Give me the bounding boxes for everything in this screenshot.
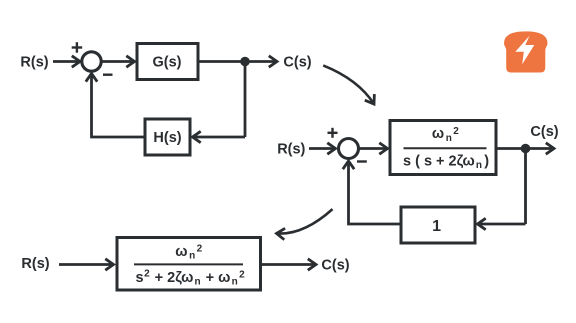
svg-text:R(s): R(s) xyxy=(21,256,49,272)
svg-text:R(s): R(s) xyxy=(20,54,48,70)
svg-text:s ( s + 2ζωn): s ( s + 2ζωn) xyxy=(403,153,489,171)
svg-text:s2 + 2ζωn + ωn2: s2 + 2ζωn + ωn2 xyxy=(136,268,246,287)
svg-text:1: 1 xyxy=(432,218,441,235)
svg-text:ωn2: ωn2 xyxy=(432,126,459,144)
svg-text:C(s): C(s) xyxy=(321,258,349,274)
svg-text:R(s): R(s) xyxy=(277,141,305,157)
svg-text:G(s): G(s) xyxy=(153,54,182,70)
svg-text:C(s): C(s) xyxy=(530,124,558,140)
svg-text:ωn2: ωn2 xyxy=(175,244,202,262)
svg-text:H(s): H(s) xyxy=(153,130,181,146)
svg-text:C(s): C(s) xyxy=(283,54,311,70)
